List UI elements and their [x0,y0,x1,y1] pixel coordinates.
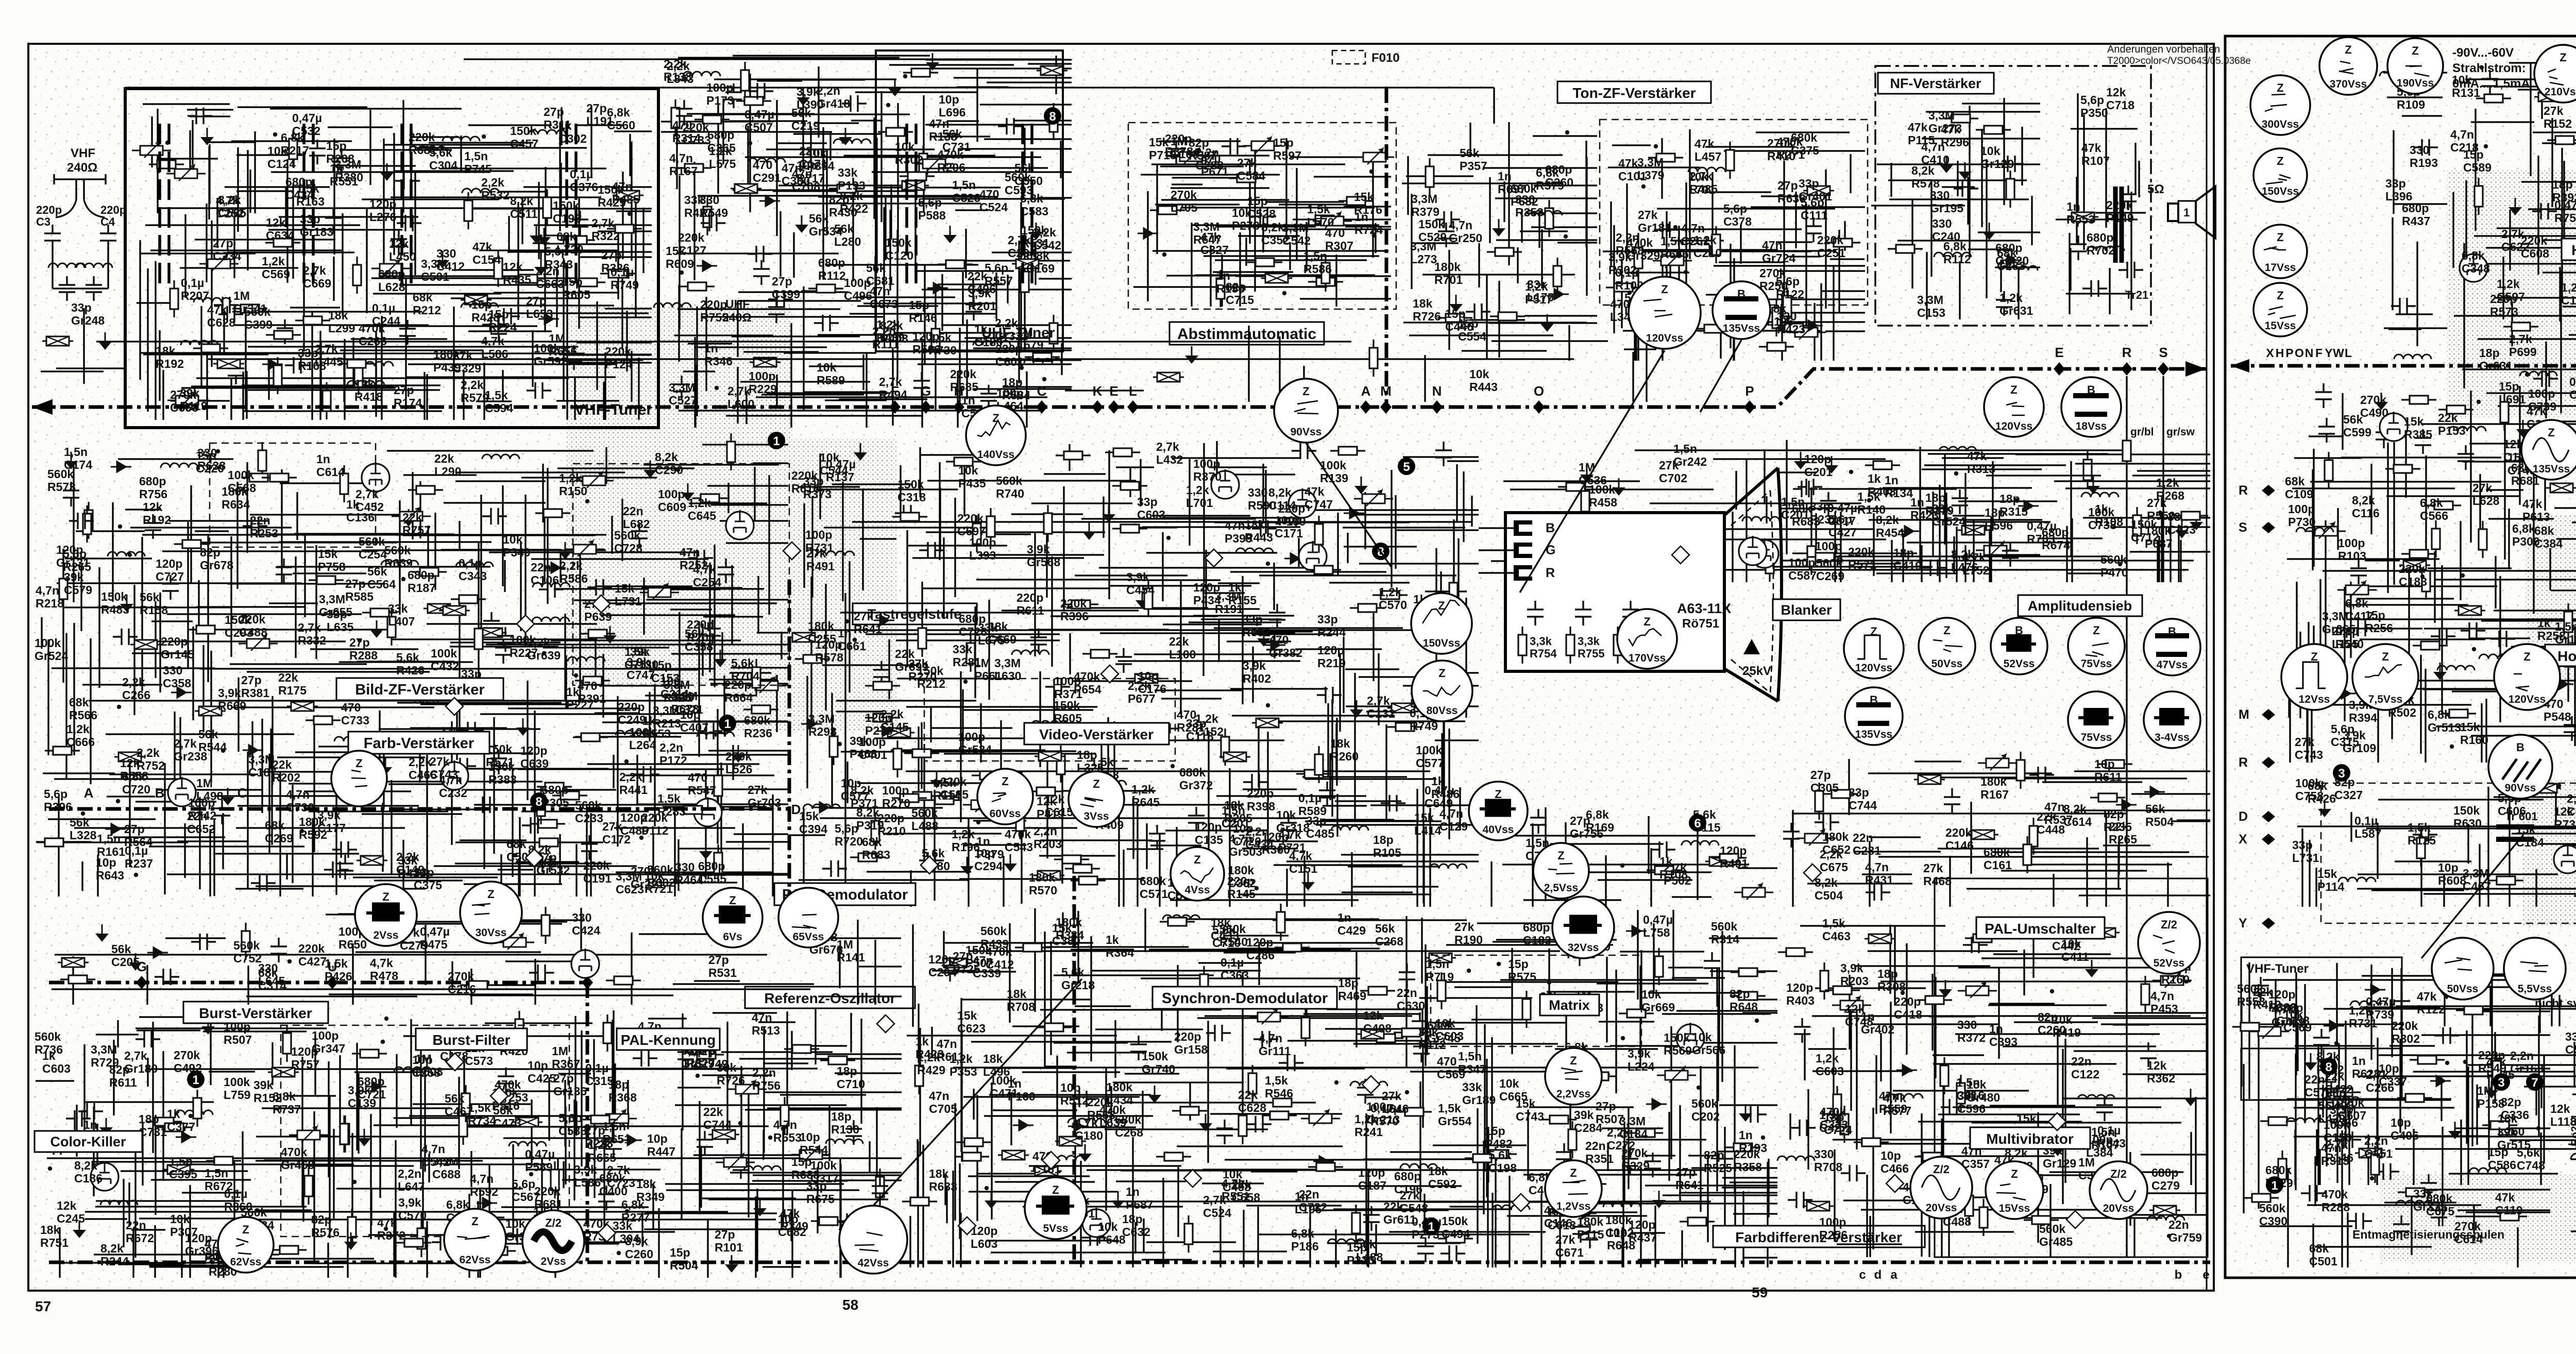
svg-text:5,6pP350: 5,6pP350 [2080,93,2108,120]
svg-text:220kC127: 220kC127 [678,231,706,257]
svg-text:Z: Z [2345,43,2351,56]
svg-text:58: 58 [842,1297,858,1313]
svg-text:R755: R755 [1578,647,1605,660]
svg-text:120pC286: 120pC286 [1246,936,1275,962]
svg-text:5,6pP588: 5,6pP588 [918,196,946,222]
svg-text:140Vss: 140Vss [977,449,1014,461]
svg-text:270kC490: 270kC490 [2360,393,2388,419]
svg-text:120pC135: 120pC135 [1195,820,1223,847]
svg-text:a: a [1890,1268,1897,1282]
svg-text:680pC721: 680pC721 [358,1075,386,1101]
svg-text:Z: Z [1302,385,1309,398]
svg-text:Y: Y [2239,916,2247,930]
svg-text:0,47µR137: 0,47µR137 [826,458,856,484]
svg-text:65Vss: 65Vss [793,931,824,943]
svg-text:gr/sw: gr/sw [2166,426,2195,438]
svg-text:Z: Z [2523,650,2530,663]
svg-text:52Vss: 52Vss [2004,658,2035,670]
svg-text:Z: Z [2548,426,2554,439]
svg-text:Matrix: Matrix [1549,997,1590,1013]
svg-text:6Vs: 6Vs [723,931,742,943]
svg-text:N: N [2305,346,2314,360]
svg-text:560kC233: 560kC233 [575,799,603,825]
svg-text:180kR570: 180kR570 [1029,871,1057,897]
svg-text:Z: Z [1495,788,1501,801]
svg-text:220pR378: 220pR378 [1165,132,1193,158]
svg-text:100kL759: 100kL759 [224,1075,250,1102]
svg-text:3,3MR647: 3,3MR647 [1193,220,1222,246]
svg-text:300Vss: 300Vss [2262,119,2299,130]
svg-text:60Vss: 60Vss [990,808,1021,820]
svg-text:d: d [1874,1268,1882,1282]
svg-text:0mA....1,5mA: 0mA....1,5mA [2452,77,2530,91]
svg-text:Farb-Verstärker: Farb-Verstärker [364,735,474,752]
svg-text:680pC183: 680pC183 [1523,921,1551,947]
svg-text:680kC675: 680kC675 [2426,1192,2454,1218]
svg-text:680pC196: 680pC196 [1394,1170,1422,1196]
svg-text:270kR329: 270kR329 [1621,1146,1650,1173]
svg-text:62Vss: 62Vss [460,1254,491,1266]
svg-text:Strahlstrom:: Strahlstrom: [2452,61,2526,75]
svg-text:560kR740: 560kR740 [996,474,1024,500]
svg-text:Z: Z [2412,44,2418,57]
svg-text:25kV: 25kV [1742,664,1771,678]
svg-text:E: E [2055,345,2063,360]
svg-text:220p: 220p [100,204,126,216]
svg-text:220kC733: 220kC733 [683,121,711,147]
svg-text:150kC494: 150kC494 [1442,1214,1470,1241]
svg-text:220pC249: 220pC249 [618,700,646,726]
svg-text:135Vss: 135Vss [2533,463,2570,475]
svg-text:D: D [2239,809,2248,824]
svg-text:R: R [2239,755,2248,770]
svg-text:Z: Z [1002,775,1008,788]
svg-text:100pR270: 100pR270 [882,784,910,810]
svg-text:gr/bl: gr/bl [2130,426,2154,438]
svg-text:1,2Vss: 1,2Vss [1556,1200,1591,1212]
svg-text:P: P [1745,383,1754,399]
svg-text:2,5Vss: 2,5Vss [1544,882,1579,894]
svg-text:Z/2: Z/2 [2110,1167,2127,1180]
svg-text:270kC607: 270kC607 [2338,1096,2366,1122]
svg-text:2Vss: 2Vss [540,1256,566,1267]
svg-text:120Vss: 120Vss [1646,332,1683,344]
svg-text:X: X [2266,346,2274,360]
svg-text:100pR370: 100pR370 [1193,457,1222,483]
svg-text:3,3MC501: 3,3MC501 [421,257,449,283]
svg-text:N: N [1432,383,1442,399]
svg-text:560kC390: 560kC390 [2259,1201,2287,1228]
svg-text:3,3MR191: 3,3MR191 [1215,589,1243,616]
svg-text:50Vss: 50Vss [1931,658,1963,670]
svg-text:0,1µC493: 0,1µC493 [2569,375,2576,401]
svg-text:47Vss: 47Vss [2157,659,2188,671]
svg-text:680pR112: 680pR112 [818,256,846,282]
svg-text:K: K [1093,383,1103,399]
svg-text:680kC375: 680kC375 [1791,131,1819,157]
svg-text:220kP112: 220kP112 [641,811,668,837]
svg-text:6: 6 [1694,817,1701,831]
svg-text:560kR314: 560kR314 [1711,920,1739,946]
svg-text:R754: R754 [1530,647,1557,660]
svg-text:1: 1 [2271,1179,2278,1193]
svg-text:220kC191: 220kC191 [583,859,612,885]
svg-text:100pR229: 100pR229 [749,369,777,396]
svg-text:3,3ML273: 3,3ML273 [1410,240,1437,266]
svg-text:3,3MR380: 3,3MR380 [335,158,363,184]
svg-text:180kP439: 180kP439 [433,348,461,374]
svg-text:170Vss: 170Vss [1629,652,1666,664]
svg-text:75Vss: 75Vss [2081,732,2112,743]
svg-text:G: G [1546,543,1555,557]
svg-text:560kC254: 560kC254 [359,535,387,561]
svg-text:Z: Z [2277,81,2283,94]
svg-text:3,3MR379: 3,3MR379 [1411,192,1439,218]
svg-text:A: A [84,785,94,801]
svg-text:C: C [1037,383,1047,399]
svg-text:UHF-Tuner: UHF-Tuner [981,325,1055,341]
svg-text:0,47µR703: 0,47µR703 [2027,519,2057,546]
svg-text:100pC496: 100pC496 [844,276,872,302]
svg-text:4,7kL752: 4,7kL752 [1962,551,1989,577]
svg-text:240Ω: 240Ω [67,161,97,175]
svg-text:270kC492: 270kC492 [174,1048,202,1075]
svg-text:W: W [2333,346,2344,360]
svg-text:270kL705: 270kL705 [1171,188,1198,214]
svg-text:R: R [2122,345,2132,360]
svg-text:O: O [2295,346,2304,360]
svg-text:A: A [1361,383,1371,399]
svg-text:15Vss: 15Vss [2265,320,2296,332]
svg-text:c: c [1859,1268,1866,1282]
svg-text:33pC589: 33pC589 [2565,1030,2576,1056]
svg-text:P: P [2285,346,2293,360]
svg-text:Z: Z [1943,624,1950,637]
svg-text:8: 8 [2325,1060,2332,1074]
svg-text:120pR491: 120pR491 [1720,844,1748,870]
svg-text:-90V...-60V: -90V...-60V [2452,46,2514,60]
svg-text:M: M [2239,707,2249,722]
svg-text:150kR630: 150kR630 [2453,804,2482,830]
svg-text:220pR549: 220pR549 [2478,1048,2506,1075]
svg-text:3,9kL224: 3,9kL224 [1628,1047,1655,1073]
svg-text:75Vss: 75Vss [2081,658,2112,670]
svg-text:135Vss: 135Vss [1855,729,1892,740]
svg-text:470kR206: 470kR206 [937,148,965,174]
svg-text:150kC120: 150kC120 [885,236,913,262]
svg-text:1,2kC174: 1,2kC174 [2561,281,2576,307]
svg-text:100kC577: 100kC577 [1416,743,1444,770]
svg-text:2Vss: 2Vss [373,929,398,941]
svg-text:1: 1 [2183,206,2190,219]
svg-text:8: 8 [1049,110,1056,124]
svg-text:100pR103: 100pR103 [2338,536,2366,563]
svg-text:100kC758: 100kC758 [2295,776,2324,803]
svg-text:Multivibrator: Multivibrator [1986,1131,2074,1147]
svg-text:3,3MC542: 3,3MC542 [1282,221,1311,247]
svg-text:Abstimmautomatic: Abstimmautomatic [1177,326,1316,343]
svg-text:680pR187: 680pR187 [408,568,436,595]
svg-text:8: 8 [535,795,542,809]
svg-text:150Vss: 150Vss [1423,637,1460,649]
svg-text:150kC293: 150kC293 [225,613,253,639]
svg-text:80Vss: 80Vss [1427,705,1458,717]
svg-text:120pC187: 120pC187 [1358,1166,1386,1192]
svg-text:2,2Vss: 2,2Vss [1556,1088,1591,1100]
svg-text:3Vss: 3Vss [1083,810,1109,822]
svg-text:135Vss: 135Vss [1723,323,1760,334]
svg-text:560kR439: 560kR439 [980,924,1009,951]
svg-text:120pL603: 120pL603 [971,1224,997,1250]
svg-text:Z: Z [1557,849,1564,862]
svg-text:Z: Z [2277,155,2283,167]
svg-text:150kR483: 150kR483 [101,590,129,616]
svg-text:470kC543: 470kC543 [1005,827,1033,854]
svg-text:680kC571: 680kC571 [1140,874,1168,901]
svg-text:180kP115: 180kP115 [1577,1215,1604,1241]
svg-text:3,3MC623: 3,3MC623 [616,870,644,896]
svg-text:NF-Verstärker: NF-Verstärker [1890,76,1981,91]
svg-text:B: B [1546,521,1555,535]
svg-text:Z: Z [471,1215,478,1228]
svg-text:220pC601: 220pC601 [995,342,1024,368]
svg-text:59: 59 [1752,1284,1768,1300]
svg-text:S: S [2239,520,2247,535]
svg-text:Bild-ZF-Verstärker: Bild-ZF-Verstärker [355,682,484,698]
svg-text:S: S [2159,345,2167,360]
svg-text:90Vss: 90Vss [2505,782,2536,794]
svg-text:220pR398: 220pR398 [1247,787,1275,813]
svg-text:Z: Z [2010,383,2017,396]
svg-text:680kR236: 680kR236 [744,714,772,740]
svg-text:680kC400: 680kC400 [599,1172,628,1198]
svg-text:5Ω: 5Ω [2147,182,2164,196]
svg-text:560kR736: 560kR736 [35,1030,63,1056]
svg-text:220kR571: 220kR571 [1848,545,1876,571]
svg-text:Z: Z [355,757,362,770]
svg-text:18Vss: 18Vss [2076,420,2107,432]
svg-text:150Vss: 150Vss [2262,185,2299,197]
svg-text:220p: 220p [36,204,62,216]
svg-text:1,2kL701: 1,2kL701 [1186,483,1213,510]
svg-text:C: C [238,785,247,801]
svg-text:0,47µP589: 0,47µP589 [525,1147,555,1174]
svg-text:A63-11X: A63-11X [1677,601,1731,616]
svg-text:210Vss: 210Vss [2545,86,2576,98]
svg-text:VHF: VHF [71,146,95,160]
svg-text:T2000>color</VSO643/05.0368e: T2000>color</VSO643/05.0368e [2107,56,2251,66]
svg-text:0,47µR570: 0,47µR570 [1370,1102,1400,1128]
svg-text:Z/2: Z/2 [1933,1163,1950,1176]
svg-text:3-4Vss: 3-4Vss [2155,732,2190,743]
svg-text:Blanker: Blanker [1781,602,1832,618]
svg-text:1,2kL575: 1,2kL575 [709,144,736,171]
svg-text:R: R [2239,483,2248,498]
svg-text:220kR302: 220kR302 [2392,1019,2420,1045]
svg-text:C3: C3 [36,215,50,228]
svg-text:560kR573: 560kR573 [47,467,76,494]
svg-text:E: E [1109,383,1118,399]
svg-text:100pC171: 100pC171 [1275,514,1303,540]
svg-text:Rö201: Rö201 [2569,1114,2576,1146]
svg-text:220pR755: 220pR755 [700,298,728,324]
svg-text:57: 57 [35,1298,51,1314]
svg-text:Tr21: Tr21 [2125,289,2148,301]
svg-text:F: F [891,383,899,399]
svg-text:220pR573: 220pR573 [2490,292,2518,318]
svg-text:Z: Z [1570,1166,1577,1179]
svg-text:560kC269: 560kC269 [1816,556,1844,583]
svg-text:VHF-Tuner: VHF-Tuner [574,401,652,418]
svg-text:2,2nP172: 2,2nP172 [659,741,687,767]
svg-text:Z: Z [729,894,736,907]
svg-text:5,5Vss: 5,5Vss [2518,983,2552,995]
svg-text:180kR634: 180kR634 [222,485,250,511]
svg-text:0,47µL758: 0,47µL758 [1643,913,1673,939]
svg-text:Z: Z [487,888,494,901]
svg-text:32Vss: 32Vss [1568,942,1599,954]
svg-text:680kC161: 680kC161 [1984,845,2012,872]
svg-text:180kP687: 180kP687 [2145,524,2173,550]
svg-text:D: D [791,802,801,817]
svg-text:180kR167: 180kR167 [1980,775,2009,801]
svg-text:560kL488: 560kL488 [911,806,939,833]
svg-text:100pL393: 100pL393 [969,536,996,562]
svg-text:1,5kL570: 1,5kL570 [1307,202,1334,229]
svg-text:220pR611: 220pR611 [1016,591,1044,617]
svg-text:220kC427: 220kC427 [298,942,327,968]
svg-text:20Vss: 20Vss [1926,1202,1957,1214]
svg-text:100pR507: 100pR507 [224,1020,252,1046]
svg-text:3,3k: 3,3k [1530,635,1552,648]
svg-text:120pC201: 120pC201 [1804,452,1833,479]
svg-text:150kR605: 150kR605 [1054,699,1082,725]
svg-text:Z: Z [2382,650,2388,663]
svg-text:5: 5 [1403,460,1410,474]
svg-text:120pL276: 120pL276 [369,197,396,224]
svg-text:50Vss: 50Vss [2447,983,2479,995]
svg-text:Z: Z [2277,289,2283,302]
svg-text:220kC608: 220kC608 [2521,234,2549,260]
svg-text:Z: Z [1570,1054,1577,1067]
svg-text:B: B [2516,741,2524,754]
svg-text:150kC457: 150kC457 [510,124,538,150]
svg-text:Z: Z [2277,231,2283,244]
svg-text:4,7kL586: 4,7kL586 [481,334,508,361]
svg-text:Z: Z [1643,615,1650,628]
svg-text:120pC639: 120pC639 [520,744,549,770]
svg-text:Video-Verstärker: Video-Verstärker [1039,726,1154,742]
svg-text:90Vss: 90Vss [1291,426,1322,438]
svg-text:370Vss: 370Vss [2330,78,2367,90]
svg-text:270kL526: 270kL526 [725,750,752,776]
svg-text:Z: Z [382,890,389,903]
svg-text:42Vss: 42Vss [858,1257,889,1269]
svg-text:H: H [954,383,964,399]
svg-text:PAL-Umschalter: PAL-Umschalter [1985,921,2096,937]
svg-text:Rö751: Rö751 [1682,617,1719,631]
svg-text:220kC183: 220kC183 [2399,562,2427,588]
svg-text:Horiz.-Ablenkung: Horiz.-Ablenkung [2557,648,2576,664]
svg-text:5Vss: 5Vss [1043,1223,1068,1234]
svg-text:680pR702: 680pR702 [2087,231,2115,257]
svg-text:Z: Z [992,412,999,425]
svg-text:100pP730: 100pP730 [2288,502,2316,529]
svg-text:15Vss: 15Vss [1999,1203,2030,1214]
svg-text:120pR219: 120pR219 [1317,644,1346,670]
svg-text:100pP173: 100pP173 [706,81,734,107]
svg-text:17Vss: 17Vss [2265,262,2296,274]
svg-text:120Vss: 120Vss [1995,420,2032,432]
svg-text:30Vss: 30Vss [476,927,507,939]
svg-text:150kR569: 150kR569 [1664,1031,1692,1057]
svg-text:Z: Z [2311,650,2317,663]
svg-text:100kC432: 100kC432 [431,647,459,673]
svg-text:18pR393: 18pR393 [2552,178,2576,204]
svg-text:220kC251: 220kC251 [1817,233,1845,260]
svg-text:X: X [2239,832,2247,847]
svg-text:100pC587: 100pC587 [1788,556,1817,582]
svg-text:L: L [2345,346,2352,360]
svg-text:Burst-Verstärker: Burst-Verstärker [199,1005,312,1021]
svg-text:220kC697: 220kC697 [957,512,986,538]
svg-text:190Vss: 190Vss [2397,77,2434,89]
svg-text:Z/2: Z/2 [545,1216,562,1229]
svg-text:0,1µL587: 0,1µL587 [2354,814,2381,840]
svg-text:1: 1 [724,717,731,731]
svg-text:220kR396: 220kR396 [1060,597,1089,623]
svg-text:F: F [2315,346,2323,360]
svg-text:4,7nP453: 4,7nP453 [2150,989,2178,1015]
svg-text:e: e [2202,1268,2209,1282]
svg-text:3,3MC184: 3,3MC184 [1619,1114,1648,1141]
svg-text:Z: Z [1661,283,1668,296]
svg-text:1: 1 [773,434,779,448]
svg-text:Änderungen vorbehalten: Änderungen vorbehalten [2107,44,2220,55]
svg-text:560kC202: 560kC202 [1691,1097,1720,1123]
svg-text:220kP124: 220kP124 [605,345,633,371]
svg-text:3,3MR298: 3,3MR298 [808,712,837,738]
svg-text:Hochspannungsteil: Hochspannungsteil [2571,242,2576,258]
svg-text:F010: F010 [1371,51,1400,65]
svg-text:680pC279: 680pC279 [2151,1166,2180,1192]
svg-text:Z: Z [2560,51,2566,64]
svg-text:3,3MC153: 3,3MC153 [1917,293,1945,319]
svg-text:Amplitudensieb: Amplitudensieb [2028,598,2132,614]
svg-text:1: 1 [1428,1220,1434,1234]
svg-text:Ton-ZF-Verstärker: Ton-ZF-Verstärker [1572,85,1696,101]
svg-text:Z: Z [1438,667,1445,680]
svg-text:20Vss: 20Vss [2103,1203,2134,1214]
svg-text:0,47µC617: 0,47µC617 [1827,501,1857,528]
svg-text:Z: Z [2093,624,2099,637]
svg-text:120pR403: 120pR403 [1786,981,1815,1007]
svg-text:O: O [1534,383,1544,399]
svg-text:220kC146: 220kC146 [1945,826,1974,852]
svg-text:100pC609: 100pC609 [658,487,686,514]
svg-text:H: H [2276,346,2284,360]
svg-text:B: B [155,785,165,801]
svg-text:G: G [921,383,931,399]
svg-text:680kC268: 680kC268 [1115,1113,1143,1139]
svg-text:180kC652: 180kC652 [1822,830,1851,856]
svg-text:270kC216: 270kC216 [448,970,476,996]
svg-text:560kR639: 560kR639 [384,544,413,570]
svg-text:Z: Z [2011,1167,2018,1180]
svg-text:3,3MR729: 3,3MR729 [91,1043,119,1069]
svg-text:Z/2: Z/2 [2161,918,2177,931]
svg-text:180kC362: 180kC362 [1228,864,1256,890]
